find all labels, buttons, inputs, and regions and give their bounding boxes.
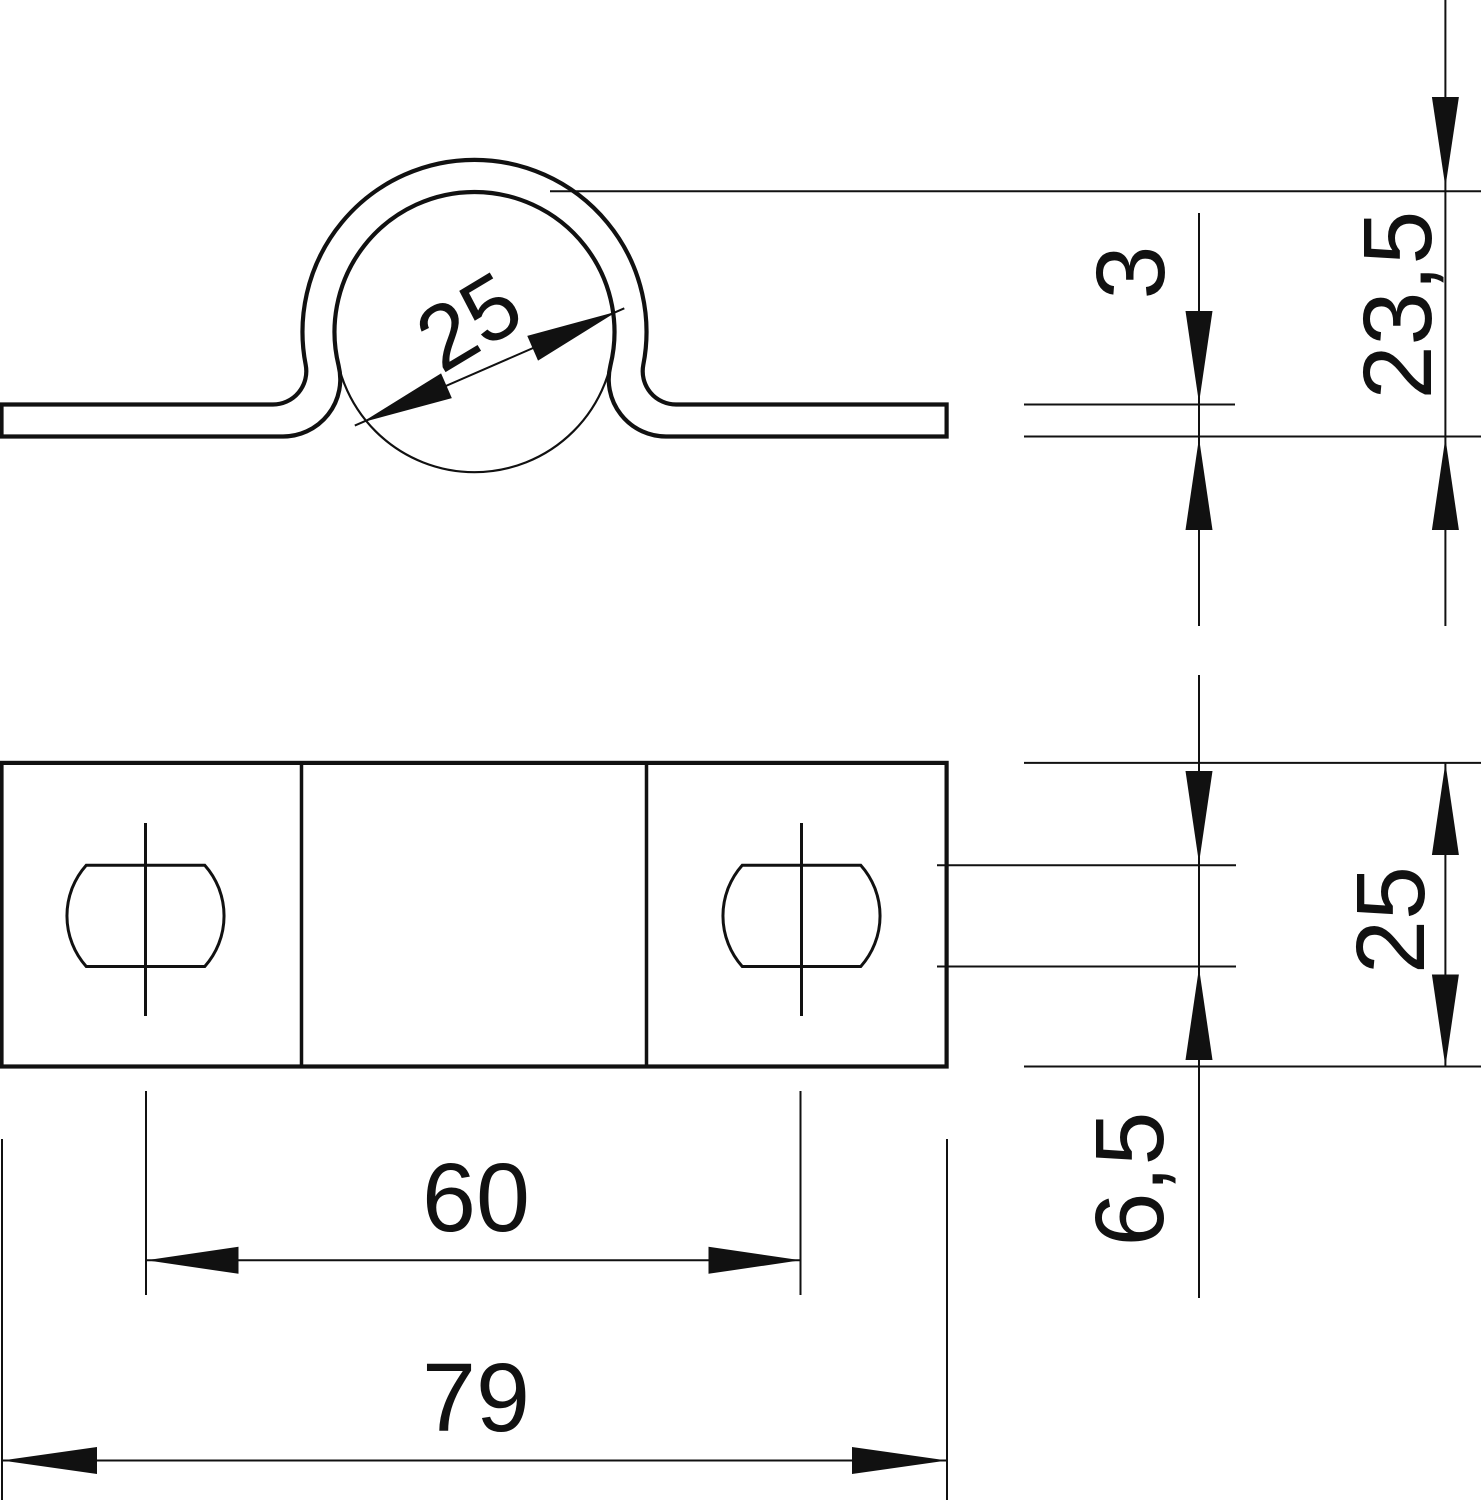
clamp strip outline (side view) xyxy=(2,160,947,437)
diameter dimension line 25 (side view) xyxy=(355,308,625,425)
extension line 60 left xyxy=(145,1091,147,1295)
extension line plan bottom right xyxy=(1024,1066,1481,1068)
arrowhead up of dim 3 xyxy=(1186,438,1213,530)
plan view left bend line xyxy=(300,763,304,1067)
arrowhead left of dim 60 xyxy=(147,1247,239,1274)
extension line slot bottom xyxy=(937,966,1236,968)
plan view plate outline xyxy=(2,763,947,1067)
right slot xyxy=(723,865,880,966)
arrowhead right of dim 60 xyxy=(709,1247,801,1274)
label 79 xyxy=(422,1343,530,1452)
label 23,5 xyxy=(1343,211,1452,400)
arrowhead down of dim 3 xyxy=(1186,311,1213,403)
svg-text:79: 79 xyxy=(422,1343,530,1452)
dimension 79 line xyxy=(2,1460,947,1462)
arrowhead up of dim 6,5 xyxy=(1186,968,1213,1060)
pipe circle (side view) xyxy=(335,192,615,472)
arrowhead down of dim 25 plan xyxy=(1432,975,1459,1067)
extension line plan top right xyxy=(1024,762,1481,764)
label 6,5 xyxy=(1075,1112,1184,1247)
arrowhead down of dim 6,5 xyxy=(1186,771,1213,863)
dimension 60 line xyxy=(146,1259,801,1261)
left slot centerline xyxy=(144,823,147,1016)
arrowhead up of dim 25 plan xyxy=(1432,763,1459,855)
label 3 xyxy=(1076,246,1185,300)
extension line strip bottom right xyxy=(1024,436,1481,438)
extension line 79 left xyxy=(1,1139,3,1500)
svg-text:6,5: 6,5 xyxy=(1075,1112,1184,1247)
dimension 25 line (plan) xyxy=(1444,763,1446,1067)
arrowhead right of dim 79 xyxy=(852,1447,947,1474)
left slot xyxy=(67,865,224,966)
arrowhead down of dim 23,5 xyxy=(1432,97,1459,187)
right slot centerline xyxy=(800,823,803,1016)
label 25 (plan) xyxy=(1336,866,1445,974)
arrowhead lower-left of dia 25 xyxy=(362,373,452,422)
extension line slot top xyxy=(937,864,1236,866)
plan view right bend line xyxy=(645,763,649,1067)
arrowhead left of dim 79 xyxy=(2,1447,97,1474)
extension line 79 right xyxy=(946,1139,948,1500)
extension line 60 right xyxy=(800,1091,802,1295)
svg-text:3: 3 xyxy=(1076,246,1185,300)
label 60 xyxy=(422,1143,530,1252)
extension line strip top right xyxy=(1024,404,1235,406)
dimension 6,5 line xyxy=(1198,675,1200,1298)
svg-text:25: 25 xyxy=(1336,866,1445,974)
label 25 (side view) xyxy=(400,253,539,392)
dimension 23,5 line xyxy=(1444,0,1446,626)
svg-text:60: 60 xyxy=(422,1143,530,1252)
arrowhead upper-right of dia 25 xyxy=(527,312,617,361)
extension line from arch top xyxy=(550,190,1481,192)
dimension 3 line xyxy=(1198,213,1200,626)
svg-text:23,5: 23,5 xyxy=(1343,211,1452,400)
arrowhead up of dim 23,5 xyxy=(1432,438,1459,530)
